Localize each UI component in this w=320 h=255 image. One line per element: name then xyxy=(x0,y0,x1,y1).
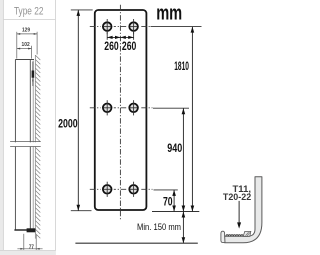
bottom holes centre line xyxy=(90,188,153,190)
plate outline xyxy=(95,10,147,210)
top grille support section xyxy=(243,231,251,236)
break line upper xyxy=(10,141,41,143)
dim 940 line xyxy=(182,108,184,211)
ext line plate bottom right xyxy=(152,211,199,213)
radiator rear rail line xyxy=(32,61,34,230)
svg-text:2000: 2000 xyxy=(58,118,78,130)
hole bottom-right xyxy=(128,182,140,197)
dim 2000 line xyxy=(77,10,79,211)
dim 260|260 extension lines xyxy=(106,31,108,40)
radiator bottom edge xyxy=(14,229,33,231)
middle holes centre line xyxy=(90,107,153,109)
dim 70 line xyxy=(173,190,175,212)
svg-text:129: 129 xyxy=(22,28,30,34)
hole top-right xyxy=(128,19,140,34)
svg-text:70: 70 xyxy=(163,197,173,209)
break line lower xyxy=(10,146,41,148)
sidebar outer grey strip left xyxy=(0,0,3,255)
svg-text:Type 22: Type 22 xyxy=(14,6,44,18)
dim 77 extension lines xyxy=(23,234,25,250)
svg-text:1810: 1810 xyxy=(174,61,189,73)
dim 129 arrows xyxy=(17,33,37,35)
radiator body side view xyxy=(15,60,34,230)
bottom bracket foot xyxy=(27,228,36,232)
svg-text:77: 77 xyxy=(29,244,34,250)
wall line xyxy=(34,55,36,239)
ext line bottom holes right xyxy=(154,189,178,191)
dim 2000 extension bottom xyxy=(71,210,92,212)
top holes centre line xyxy=(90,26,151,28)
dim 1810 line xyxy=(191,27,193,212)
svg-text:T20-22: T20-22 xyxy=(223,192,251,203)
svg-text:Min. 150 mm: Min. 150 mm xyxy=(137,222,181,233)
dim 129 line xyxy=(17,33,37,35)
dim 260|260 lines xyxy=(107,36,133,38)
hole bottom-left xyxy=(101,182,113,197)
dim 2000 extension top xyxy=(71,9,93,11)
svg-text:260: 260 xyxy=(122,41,136,53)
svg-text:102: 102 xyxy=(22,42,30,48)
wall hatching xyxy=(35,55,40,238)
ext line top holes right xyxy=(151,26,202,28)
break band xyxy=(10,142,41,146)
hole top-left xyxy=(101,19,113,34)
hole mid-right xyxy=(128,100,140,115)
floor line xyxy=(75,242,197,244)
dim 129 extension lines xyxy=(17,32,37,59)
pointer arrow xyxy=(238,201,240,223)
wall bracket top xyxy=(32,62,34,87)
sidebar outer grey strip bottom xyxy=(0,251,56,255)
svg-text:940: 940 xyxy=(167,143,182,155)
grille zigzag xyxy=(226,235,243,237)
hole mid-left xyxy=(101,100,113,115)
svg-text:260: 260 xyxy=(104,41,118,53)
bracket pin xyxy=(32,80,33,82)
wall bracket body xyxy=(32,71,35,78)
centre dash-dot line xyxy=(119,5,121,221)
dim 102 line xyxy=(17,48,32,50)
ext line mid holes right xyxy=(153,107,189,109)
sidebar box borders xyxy=(0,0,56,250)
svg-text:mm: mm xyxy=(156,3,182,25)
dim Min150 line xyxy=(182,212,184,244)
dim 77 line with outside arrows xyxy=(17,248,42,250)
dim 102 arrows xyxy=(17,48,32,50)
panel J profile xyxy=(225,177,262,243)
rolled end xyxy=(221,231,225,242)
